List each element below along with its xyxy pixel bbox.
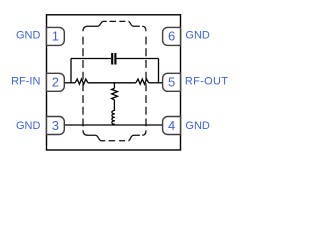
- pin 6 box: [163, 27, 181, 45]
- pin 2 box: [47, 73, 65, 91]
- wire: right riser from cap branch: [158, 59, 160, 83]
- ground rail pin3 to pin4: [64, 124, 162, 126]
- left edge dashes: [82, 37, 84, 131]
- svg-text:GND: GND: [16, 120, 41, 132]
- bottom edge: right shoulder + step (solid run): [128, 135, 140, 141]
- svg-text:GND: GND: [16, 30, 41, 42]
- top edge: right step + shoulder (solid run): [128, 21, 140, 26]
- package body outline: [47, 15, 181, 150]
- wire: left resistor to right resistor (through node A): [88, 82, 136, 84]
- die case dashed outline: [83, 21, 146, 140]
- svg-text:2: 2: [52, 75, 59, 90]
- bottom-right corner (solid): [142, 130, 146, 135]
- pin 3 box: [47, 117, 65, 135]
- svg-text:3: 3: [52, 118, 59, 133]
- resistor R1 (series left): [75, 79, 88, 84]
- svg-text:GND: GND: [185, 30, 210, 42]
- pin 4 box: [163, 117, 181, 135]
- wire: pin2 to left resistor: [64, 82, 75, 84]
- svg-text:6: 6: [168, 29, 175, 44]
- resistor R3 (shunt): [112, 88, 118, 100]
- svg-text:5: 5: [168, 75, 175, 90]
- svg-text:RF-IN: RF-IN: [11, 76, 40, 88]
- right edge dashes: [145, 37, 147, 131]
- bottom edge dashes: [109, 140, 125, 142]
- pin 5 box: [163, 73, 181, 91]
- top edge dashes: [110, 20, 126, 22]
- inductor L1 (shunt): [112, 110, 115, 125]
- svg-text:1: 1: [52, 29, 59, 44]
- wire: cap branch right horizontal: [117, 58, 159, 60]
- top-right corner (solid): [142, 26, 146, 31]
- wire: cap branch left horizontal: [71, 58, 111, 60]
- resistor R2 (series right): [136, 79, 149, 84]
- svg-text:4: 4: [168, 118, 175, 133]
- wire: shunt from node A down: [113, 83, 115, 89]
- top edge: corner + left shoulder + step (solid run): [83, 21, 107, 31]
- wire: shunt resistor to inductor: [113, 100, 115, 110]
- bottom edge: left step + shoulder + corner (solid run): [83, 130, 105, 140]
- pin 1 box: [47, 27, 65, 45]
- svg-text:GND: GND: [185, 120, 210, 132]
- svg-text:RF-OUT: RF-OUT: [185, 76, 228, 88]
- wire: left riser to cap branch: [70, 59, 72, 83]
- capacitor C1 (bridge): [112, 53, 115, 65]
- wire: right resistor to pin5: [149, 82, 163, 84]
